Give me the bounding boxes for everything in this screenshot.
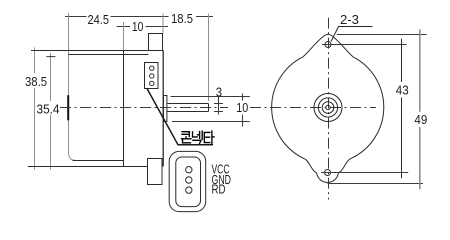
connector detail pin GND <box>186 177 192 183</box>
extension line top (ear apex) <box>337 34 427 36</box>
dimension 10 (right) vertical line <box>242 94 244 127</box>
can bottom line <box>73 160 124 162</box>
tick shaft bottom <box>214 111 223 113</box>
connector pin 3 <box>150 81 154 85</box>
hub circle middle <box>318 98 337 117</box>
plate bottom line <box>28 166 148 168</box>
svg-text:2-3: 2-3 <box>340 12 359 27</box>
connector detail inner shell <box>176 157 201 207</box>
svg-text:49: 49 <box>414 112 427 127</box>
hub circle outer <box>314 94 342 122</box>
horizontal centerline <box>250 107 376 109</box>
svg-text:10: 10 <box>236 100 248 115</box>
svg-text:10: 10 <box>132 19 144 34</box>
dimension 43 vertical line <box>401 39 403 179</box>
korean label 콘넥타 (drawn strokes) <box>182 131 215 144</box>
top mounting tab <box>149 34 163 51</box>
svg-text:38.5: 38.5 <box>25 74 47 89</box>
can/plate boundary vertical <box>123 51 125 167</box>
extension line top hole <box>322 44 407 46</box>
connector block on plate <box>145 63 159 89</box>
extension line x=68.6 + motor can left edge <box>69 13 77 161</box>
tick top of 35.4 <box>46 56 55 58</box>
top mounting hole <box>325 42 331 48</box>
svg-text:24.5: 24.5 <box>88 12 110 27</box>
connector pin 1 <box>150 66 154 70</box>
rear bearing boss (black segment on can left edge) <box>67 95 69 120</box>
leader to connector label <box>147 89 213 145</box>
타 <box>204 131 214 144</box>
connector detail pin VCC <box>186 167 192 173</box>
dimension 35.4 vertical line <box>50 53 52 170</box>
side view horizontal centerline <box>60 107 228 109</box>
bottom mounting tab <box>148 159 163 185</box>
svg-text:35.4: 35.4 <box>37 101 60 116</box>
boss extension line bottom <box>172 121 250 123</box>
bottom mounting hole <box>325 170 331 176</box>
motor body silhouette <box>272 34 384 182</box>
vertical centerline <box>328 18 330 200</box>
svg-text:3: 3 <box>216 84 222 99</box>
motor body top line (upper) <box>31 50 163 52</box>
dimension 38.5 vertical line <box>34 47 36 169</box>
svg-text:43: 43 <box>396 82 409 97</box>
shaft <box>167 104 209 112</box>
boss extension line top <box>171 96 250 98</box>
dimension 10 (top) line <box>117 26 168 28</box>
extension line bottom (ear) <box>328 183 424 185</box>
connector pin 2 <box>150 74 154 78</box>
shaft center <box>326 105 330 109</box>
콘 <box>182 132 192 143</box>
svg-text:18.5: 18.5 <box>171 11 193 26</box>
dimension 49 vertical line <box>419 29 421 189</box>
extension line bottom hole <box>321 172 408 174</box>
plate right edge <box>162 51 164 167</box>
shaft bushing <box>164 96 167 122</box>
넥 <box>193 131 203 143</box>
svg-text:RD: RD <box>212 182 226 197</box>
extension line x=208.8 (shaft tip) <box>208 14 210 102</box>
tick shaft top <box>214 103 223 105</box>
connector detail outer shell <box>169 151 206 211</box>
hub circle inner <box>322 102 334 114</box>
leader 2-3 <box>331 27 373 42</box>
dimension 24.5 / 18.5 line <box>65 16 213 18</box>
dimension 3 (shaft dia) vertical line <box>218 97 220 115</box>
connector detail pin RD <box>186 187 192 193</box>
extension line x=162.3 <box>162 13 164 33</box>
extension line x=123.4 <box>123 22 125 51</box>
motor body top line (lower) <box>69 54 149 56</box>
